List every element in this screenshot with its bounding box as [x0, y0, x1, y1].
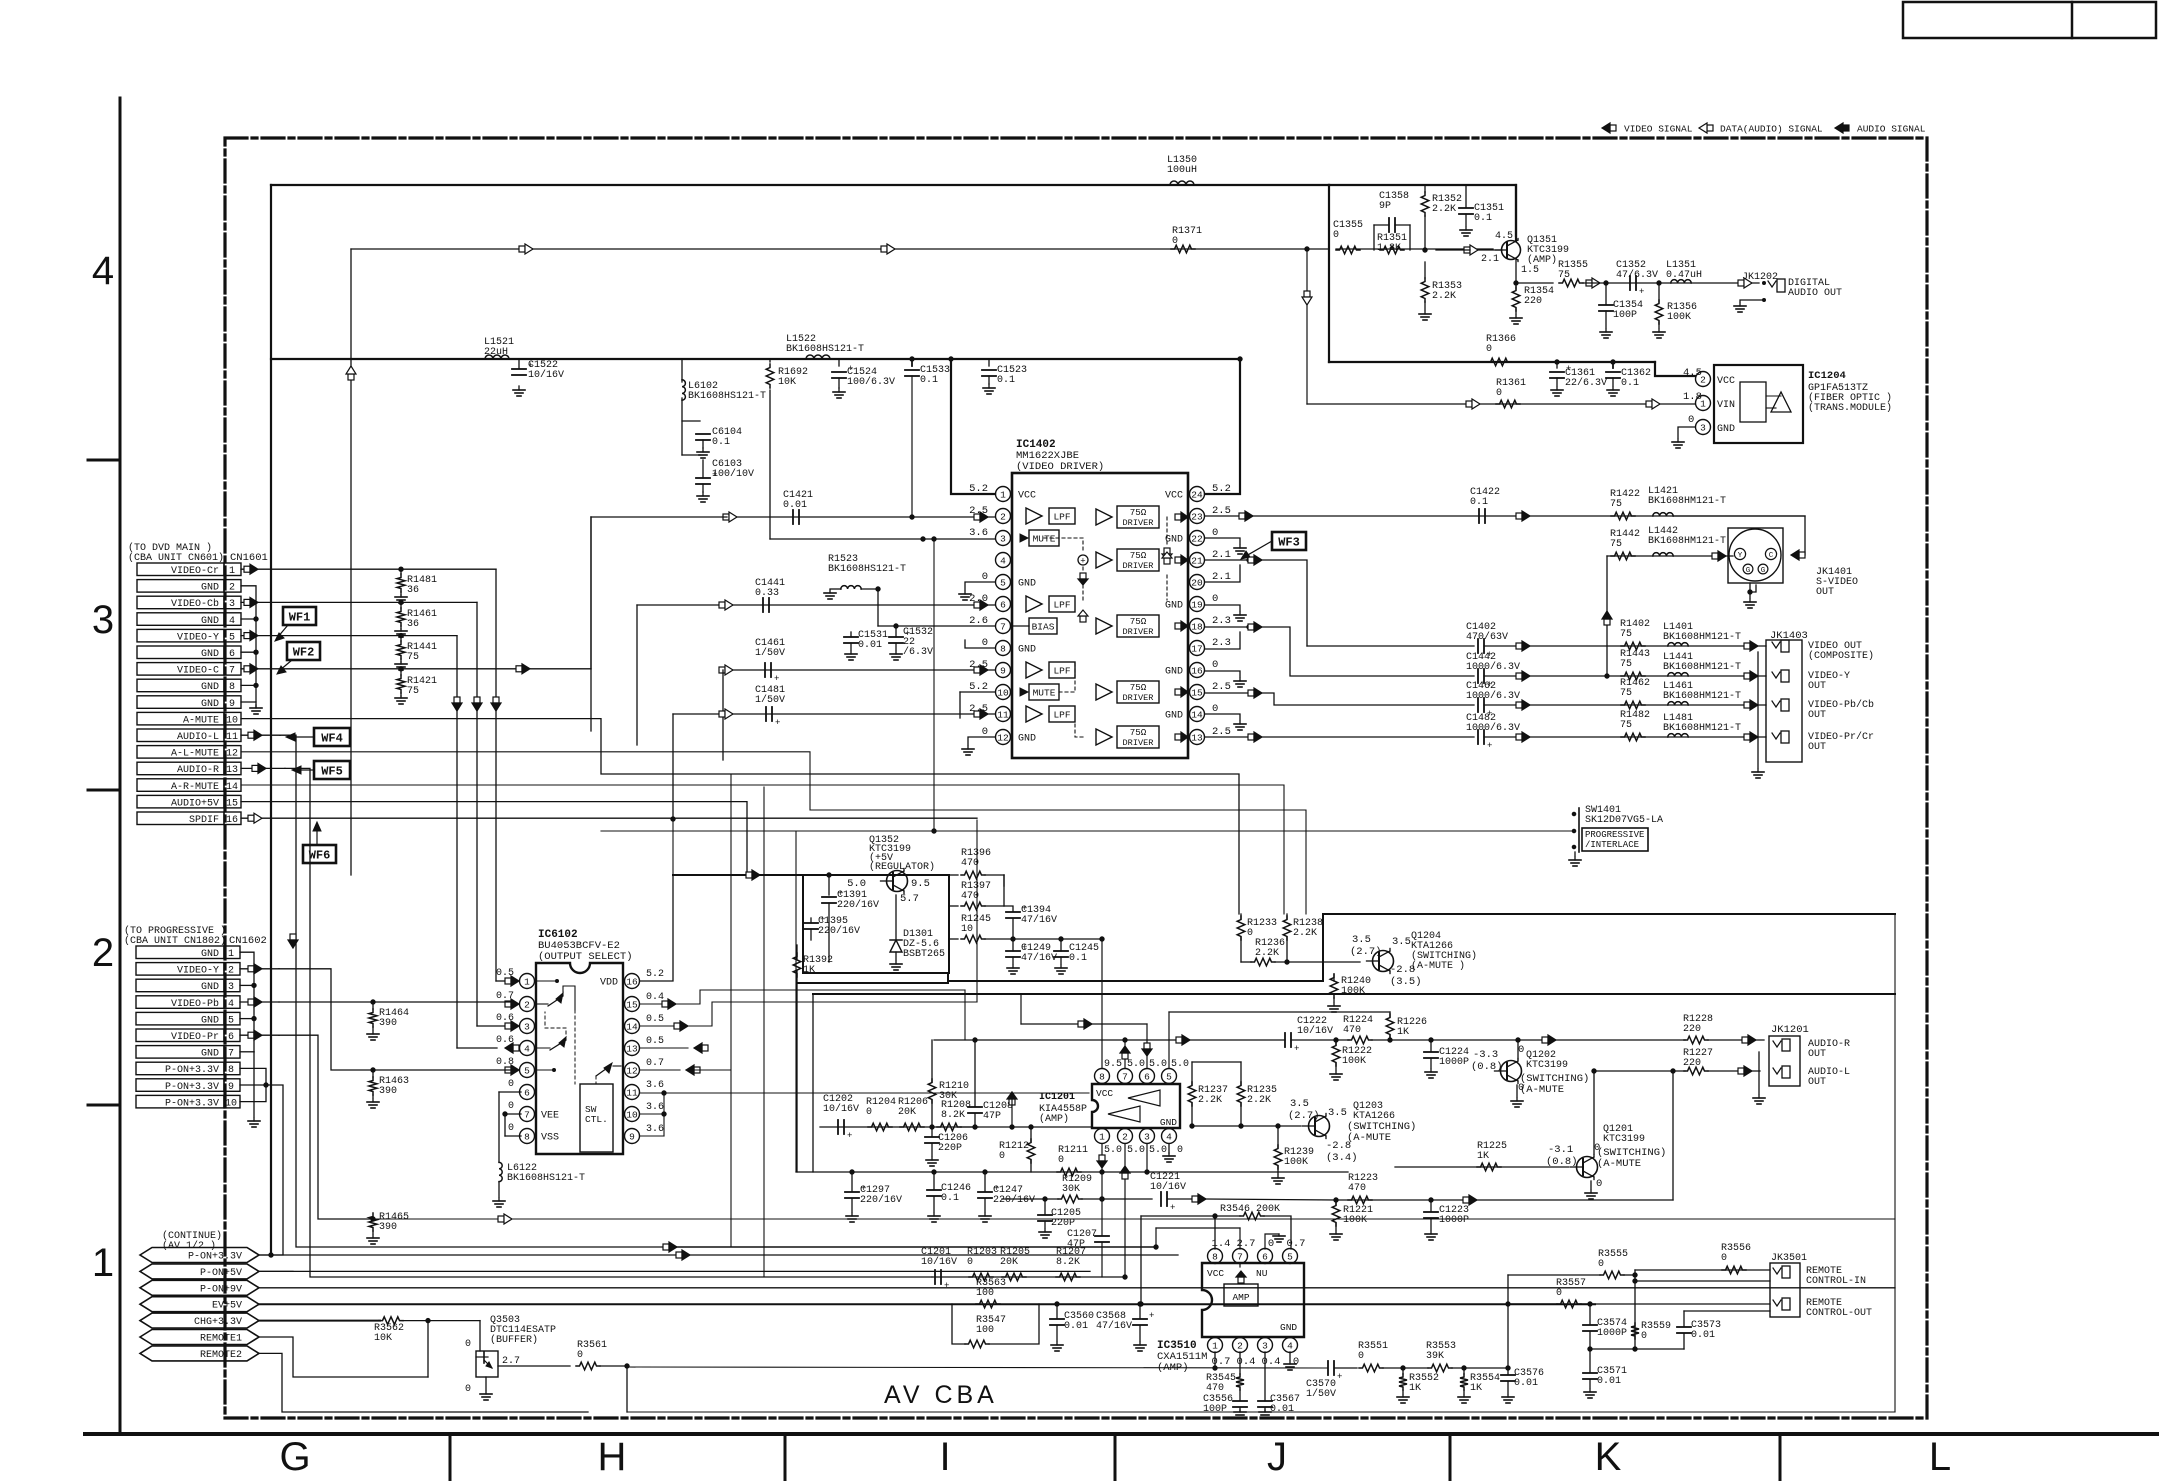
wire R1442 row: [1607, 551, 1733, 561]
svg-text:MUTE: MUTE: [1033, 534, 1056, 545]
capacitor C1481: [755, 685, 785, 728]
svg-text:1K: 1K: [1470, 1383, 1482, 1394]
svg-text:5.0: 5.0: [1149, 1145, 1167, 1156]
svg-text:22uH: 22uH: [484, 347, 508, 358]
svg-text:OUT: OUT: [1808, 710, 1826, 721]
svg-text:+: +: [847, 1131, 852, 1141]
IC1402 BIAS block: [1011, 618, 1057, 634]
resistor R3557: [1556, 1278, 1586, 1308]
svg-text:2: 2: [92, 931, 114, 975]
wire R1207 out: [0, 0, 1, 1]
svg-text:3: 3: [524, 1022, 530, 1033]
wire trunk y=359: [271, 358, 1240, 360]
svg-text:9.5: 9.5: [1104, 1059, 1122, 1070]
svg-text:P-ON+3.3V: P-ON+3.3V: [165, 1098, 219, 1109]
svg-text:75: 75: [1558, 270, 1570, 281]
svg-text:100: 100: [976, 1325, 994, 1336]
svg-text:(3.5): (3.5): [1390, 976, 1422, 988]
resistor R1355: [1558, 260, 1588, 287]
svg-text:75Ω: 75Ω: [1130, 682, 1147, 693]
wire pin5 gnd stub: [959, 582, 995, 600]
wire mid bus e: [0, 0, 1, 1]
IC1402 75ohm drivers: [1096, 506, 1159, 748]
wire L6102 down: [681, 398, 683, 455]
svg-text:DRIVER: DRIVER: [1123, 561, 1154, 571]
svg-text:2: 2: [228, 966, 234, 977]
svg-text:470: 470: [1343, 1025, 1361, 1036]
svg-text:0.01: 0.01: [1270, 1404, 1294, 1415]
svg-text:0: 0: [1358, 1351, 1364, 1362]
capacitor C1421: [783, 490, 813, 524]
svg-text:12: 12: [997, 733, 1009, 744]
svg-text:VIDEO-Pb: VIDEO-Pb: [171, 998, 219, 1010]
wire trunk top y=185: [271, 184, 1329, 186]
svg-text:1: 1: [524, 977, 530, 988]
svg-text:390: 390: [379, 1018, 397, 1029]
svg-text:P-ON+3.3V: P-ON+3.3V: [165, 1065, 219, 1076]
svg-text:10/16V: 10/16V: [1297, 1025, 1333, 1037]
column label L: [1929, 1435, 1951, 1479]
IC1402 summing node: [1078, 555, 1088, 567]
svg-text:MUTE: MUTE: [1033, 688, 1056, 699]
svg-text:5.0: 5.0: [1171, 1059, 1189, 1070]
resistor R1223: [1348, 1173, 1378, 1204]
label VIDEO OUT: [1808, 641, 1874, 662]
wire R3561 right: [600, 1364, 629, 1412]
svg-text:100K: 100K: [1667, 312, 1691, 323]
arrow above C1208: [1007, 1092, 1017, 1129]
IC1402 labels: [1016, 439, 1104, 473]
capacitor C6104: [682, 421, 742, 458]
wire VIN line: [1302, 247, 1695, 404]
svg-text:0.1: 0.1: [1470, 497, 1488, 508]
IC6102 box: [536, 963, 623, 1154]
svg-text:10K: 10K: [374, 1333, 392, 1344]
svg-text:1K: 1K: [1397, 1027, 1409, 1038]
svg-text:4.5: 4.5: [1683, 367, 1702, 379]
connector CN1601 header: [128, 542, 268, 564]
svg-text:6: 6: [1000, 600, 1006, 611]
svg-text:2.7: 2.7: [1237, 1238, 1256, 1250]
svg-text:47P: 47P: [983, 1111, 1001, 1122]
capacitor C1351: [1459, 185, 1504, 236]
wire pin8 stub: [965, 640, 995, 648]
wire R3546 loop: [1139, 1214, 1291, 1306]
wire pin1 drop: [1097, 1144, 1107, 1236]
capacitor C1422: [1470, 487, 1500, 523]
svg-text:10: 10: [997, 688, 1009, 699]
svg-text:47/16V: 47/16V: [1021, 952, 1057, 964]
wire pin5 riser: [1168, 1012, 1170, 1068]
wire CN1602 pin4 run: [0, 0, 1, 1]
svg-text:(A-MUTE: (A-MUTE: [1597, 1158, 1641, 1170]
svg-text:4: 4: [524, 1044, 530, 1055]
diode D1301: [890, 895, 945, 970]
jack JK1201: [1753, 1024, 1850, 1104]
svg-text:10/16V: 10/16V: [921, 1256, 957, 1268]
svg-text:1.5: 1.5: [1521, 265, 1539, 276]
capacitor C1523: [982, 359, 1027, 394]
svg-text:4: 4: [229, 616, 235, 627]
inductor L6122: [493, 1162, 585, 1207]
svg-text:J: J: [1267, 1435, 1287, 1479]
svg-text:100P: 100P: [1203, 1404, 1227, 1415]
WF1 box: [275, 607, 316, 641]
label VIDEO-Pr/Cr: [1808, 731, 1874, 753]
svg-text:7: 7: [1000, 622, 1006, 633]
capacitor C1247: [978, 1170, 1035, 1222]
wire R1366 rail: [1329, 362, 1695, 376]
open arrow VIN b: [1646, 399, 1660, 409]
inductor L1421: [1648, 486, 1726, 516]
svg-text:0: 0: [1333, 230, 1339, 241]
svg-text:GND: GND: [201, 982, 219, 993]
svg-text:3: 3: [228, 982, 234, 993]
svg-text:3: 3: [1262, 1341, 1268, 1352]
wire pin14 run: [640, 1002, 977, 1031]
power entry arrows (CONTINUE AV 1/2): [140, 1248, 259, 1361]
resistor R1463: [367, 1070, 409, 1108]
svg-text:/6.3V: /6.3V: [903, 646, 933, 658]
svg-text:WF1: WF1: [289, 611, 311, 625]
svg-text:30K: 30K: [1062, 1184, 1080, 1195]
svg-text:0.01: 0.01: [858, 640, 882, 651]
svg-text:3: 3: [1144, 1132, 1150, 1143]
svg-text:DRIVER: DRIVER: [1123, 738, 1154, 748]
svg-text:3.5: 3.5: [1392, 936, 1411, 948]
resistor R3553: [1426, 1341, 1456, 1372]
svg-text:K: K: [1595, 1435, 1622, 1479]
svg-text:2: 2: [1000, 512, 1006, 523]
wire CN1601 gnd bus: [241, 586, 262, 714]
connector CN1602 header: [124, 925, 267, 947]
svg-text:2.5: 2.5: [1212, 681, 1231, 693]
wire pin2 down: [1239, 1352, 1241, 1374]
svg-text:-3.3: -3.3: [1473, 1049, 1498, 1061]
frame column tick: [449, 1434, 452, 1481]
svg-text:5: 5: [1166, 1072, 1172, 1083]
svg-text:22/6.3V: 22/6.3V: [1565, 377, 1607, 389]
wire ic3510 vcc net: [0, 0, 1, 1]
inductor L1481: [1663, 713, 1741, 737]
svg-text:4: 4: [1166, 1132, 1172, 1143]
open arrow after R1355: [1586, 278, 1600, 288]
svg-text:100K: 100K: [1341, 986, 1365, 997]
wire S-video Y drop: [1602, 556, 1612, 678]
frame row tick 2/1: [88, 1104, 120, 1107]
resistor R1227: [1683, 1048, 1713, 1075]
svg-text:VDD: VDD: [600, 978, 618, 989]
svg-text:9: 9: [629, 1132, 635, 1143]
wire r3551 right: [1383, 1366, 1428, 1370]
IC1402 pin16 gnd: [1205, 671, 1246, 687]
svg-text:2.2K: 2.2K: [1198, 1095, 1222, 1106]
svg-text:GND: GND: [201, 949, 219, 960]
svg-text:CN1601: CN1601: [230, 552, 268, 564]
svg-text:VIDEO-Cb: VIDEO-Cb: [171, 598, 219, 610]
wire A-MUTE pin10: [241, 719, 1239, 914]
IC1402 pin22 gnd: [1205, 538, 1246, 554]
svg-text:CHG+3.3V: CHG+3.3V: [194, 1317, 242, 1328]
resistor R3554: [1458, 1368, 1500, 1403]
transistor Q1352: [869, 835, 935, 894]
svg-text:+: +: [1294, 1044, 1299, 1054]
resistor R1235: [1192, 1062, 1277, 1126]
svg-text:SK12D07VG5-LA: SK12D07VG5-LA: [1585, 815, 1663, 826]
svg-text:(OUTPUT SELECT): (OUTPUT SELECT): [538, 951, 633, 963]
wire CN1602 pin2: [240, 964, 279, 974]
capacitor C1461: [755, 638, 785, 684]
svg-text:KTC3199: KTC3199: [1526, 1060, 1568, 1071]
wire pin3 drop: [1145, 1144, 1149, 1174]
wire pin13 run: [640, 1043, 708, 1053]
wire P-ON+9V line: [259, 1287, 1895, 1289]
WF4 box: [286, 728, 350, 746]
wire long v set: [673, 774, 796, 1277]
svg-text:100P: 100P: [1613, 310, 1637, 321]
inductor L1401: [1663, 622, 1741, 646]
wire pin9 input: [719, 665, 995, 675]
wire CN1602 gnd down: [248, 1052, 260, 1127]
wire q1201 col: [1592, 1069, 1675, 1200]
border frame bottom rule: [85, 1432, 2159, 1436]
svg-text:(0.8): (0.8): [1546, 1156, 1578, 1168]
capacitor C1205: [1038, 1199, 1081, 1238]
svg-text:VIDEO SIGNAL: VIDEO SIGNAL: [1624, 124, 1693, 135]
wire A-L-MUTE pin12: [241, 752, 1306, 914]
connector CN1601 body: [137, 563, 241, 826]
svg-text:EV+5V: EV+5V: [212, 1301, 242, 1312]
svg-text:0: 0: [1177, 1145, 1183, 1156]
svg-text:BIAS: BIAS: [1032, 622, 1055, 633]
svg-text:0: 0: [1212, 703, 1218, 715]
svg-text:0.01: 0.01: [1064, 1321, 1088, 1332]
svg-text:AV CBA: AV CBA: [884, 1381, 998, 1409]
svg-text:BK1608HS121-T: BK1608HS121-T: [507, 1173, 585, 1184]
svg-text:3: 3: [229, 599, 235, 610]
svg-text:0.4: 0.4: [646, 992, 664, 1003]
resistor R1209: [1058, 1174, 1092, 1203]
resistor R1238: [1283, 914, 1323, 962]
wire CN1602 pin6 run: [279, 1035, 1895, 1224]
svg-text:WF4: WF4: [321, 732, 343, 746]
svg-text:0: 0: [1496, 388, 1502, 399]
svg-text:BSBT265: BSBT265: [903, 949, 945, 960]
IC6102 left pins: [496, 968, 559, 1144]
svg-text:3.6: 3.6: [646, 1124, 664, 1135]
svg-text:0.1: 0.1: [941, 1193, 959, 1204]
svg-text:BK1608HM121-T: BK1608HM121-T: [1663, 723, 1741, 734]
resistor R1692: [766, 359, 808, 539]
svg-text:0.1: 0.1: [1069, 953, 1087, 964]
svg-text:P-ON+9V: P-ON+9V: [200, 1284, 242, 1295]
svg-text:(VIDEO DRIVER): (VIDEO DRIVER): [1016, 461, 1104, 473]
svg-text:75: 75: [407, 686, 419, 697]
svg-text:14: 14: [226, 782, 238, 793]
wire trunk to IC1402 pin1 VCC: [949, 357, 995, 494]
capacitor C1201: [921, 1247, 957, 1291]
svg-text:0: 0: [1212, 527, 1218, 539]
wire EV+5V line: [259, 1303, 1595, 1305]
svg-text:100/6.3V: 100/6.3V: [847, 376, 895, 388]
svg-text:2.1: 2.1: [1481, 254, 1499, 265]
svg-text:5.2: 5.2: [969, 483, 988, 495]
wire r3557 right: [1581, 1302, 1770, 1306]
resistor R1351: [1377, 233, 1407, 254]
svg-text:1K: 1K: [1477, 1151, 1489, 1162]
transistor Q1351: [1496, 185, 1570, 266]
IC3510 bottom pins: [1208, 1338, 1300, 1369]
svg-text:BK1608HM121-T: BK1608HM121-T: [1648, 536, 1726, 547]
wire CN1602 pin2 run: [279, 969, 511, 1072]
svg-text:100: 100: [976, 1288, 994, 1299]
wire pin6 riser: [1142, 1024, 1152, 1068]
svg-text:JK1202: JK1202: [1742, 272, 1778, 283]
wire CN1601 pin1 run: [241, 564, 496, 574]
wire AUDIO-R run: [285, 768, 932, 1277]
IC3510 top pins: [1208, 1234, 1306, 1264]
svg-text:AUDIO+5V: AUDIO+5V: [171, 798, 219, 809]
resistor R1481: [395, 569, 437, 603]
svg-text:GND: GND: [1165, 667, 1183, 678]
svg-text:0: 0: [1247, 928, 1253, 939]
svg-text:GND: GND: [201, 1049, 219, 1060]
svg-text:L: L: [1929, 1435, 1951, 1479]
svg-text:GND: GND: [201, 649, 219, 660]
inductor L1461: [1663, 681, 1741, 705]
open arrow on 249 line b: [881, 244, 895, 254]
wire P-ON+3.3V vertical trunk: [270, 185, 272, 1255]
svg-text:470: 470: [961, 891, 979, 902]
svg-text:0: 0: [1598, 1259, 1604, 1270]
wire pin3 down: [1264, 1352, 1266, 1401]
wire Q1203 base: [1190, 1124, 1301, 1128]
wire P-ON+5V line: [259, 1270, 1090, 1272]
IC3510 pin4 gnd: [1284, 1352, 1296, 1370]
Q1352 values: [847, 878, 930, 905]
svg-text:AUDIO OUT: AUDIO OUT: [1788, 288, 1842, 299]
svg-text:3.5: 3.5: [1328, 1107, 1347, 1119]
wire IC3510 pin8 heavy: [1214, 1216, 1216, 1249]
capacitor C1402: [1466, 622, 1508, 660]
capacitor C3567: [1258, 1394, 1300, 1418]
svg-text:0: 0: [508, 1123, 514, 1134]
svg-text:+: +: [1337, 1372, 1342, 1382]
svg-text:+: +: [944, 1281, 949, 1291]
wire y1349 bus: [1590, 1347, 1684, 1351]
svg-text:7: 7: [524, 1110, 530, 1121]
svg-text:9P: 9P: [1379, 201, 1391, 212]
svg-text:GND: GND: [201, 682, 219, 693]
resistor R3562: [374, 1317, 480, 1344]
capacitor C1361: [1550, 360, 1607, 396]
row label 4: [92, 249, 114, 293]
svg-text:A-MUTE: A-MUTE: [183, 715, 219, 726]
IC1402 output arrows: [1175, 512, 1188, 742]
svg-text:WF6: WF6: [309, 849, 331, 863]
svg-text:16: 16: [1191, 666, 1203, 677]
wire long v x=781: [0, 0, 1, 1]
wire SPDIF pin16: [241, 813, 977, 823]
svg-text:0: 0: [465, 1384, 471, 1395]
connector CN1602 body: [136, 946, 240, 1109]
svg-text:20: 20: [1191, 578, 1203, 589]
label AV CBA: [884, 1381, 998, 1409]
svg-text:470: 470: [961, 858, 979, 869]
IC1201 box: [1092, 1084, 1180, 1128]
svg-text:2.2K: 2.2K: [1432, 291, 1456, 302]
svg-text:0.7: 0.7: [646, 1058, 664, 1069]
svg-text:+: +: [1487, 741, 1492, 751]
resistor R1221: [1330, 1198, 1373, 1240]
svg-text:GND: GND: [201, 583, 219, 594]
WF5 box: [292, 761, 350, 779]
svg-text:(2.7): (2.7): [1350, 946, 1382, 958]
resistor R3545: [1206, 1373, 1244, 1394]
wire r3555 right: [1624, 1270, 1770, 1283]
svg-text:0: 0: [1268, 1238, 1274, 1250]
open arrow on 249 line: [519, 244, 533, 254]
svg-text:H: H: [598, 1435, 627, 1479]
svg-text:PROGRESSIVE: PROGRESSIVE: [1585, 830, 1644, 840]
jack JK1401 S-VIDEO: [1728, 528, 1858, 608]
svg-text:9: 9: [1000, 666, 1006, 677]
svg-text:8: 8: [228, 1065, 234, 1076]
wire C1402 left: [1307, 645, 1474, 647]
capacitor C1358: [1374, 191, 1410, 250]
resistor R1203: [967, 1247, 997, 1281]
svg-text:C: C: [1769, 552, 1774, 560]
svg-text:47/16V: 47/16V: [1021, 914, 1057, 926]
inductor L1441: [1663, 652, 1741, 676]
resistor R3559: [1631, 1321, 1671, 1342]
svg-text:1000/6.3V: 1000/6.3V: [1466, 690, 1520, 702]
capacitor C1391: [822, 873, 879, 962]
IC1204 fiber optic module box: [1714, 365, 1803, 443]
svg-text:3: 3: [92, 598, 114, 642]
wire pin3 input: [770, 537, 995, 541]
resistor R3561: [576, 1340, 607, 1370]
svg-text:3.5: 3.5: [1290, 1098, 1309, 1110]
Q1204 values: [1350, 934, 1422, 988]
svg-text:2.2K: 2.2K: [1293, 928, 1317, 939]
progressive/interlace box: [1582, 828, 1648, 851]
svg-text:0: 0: [982, 571, 988, 583]
wire R1245 down: [0, 0, 1, 1]
legend data signal arrow: [1699, 123, 1823, 135]
Q1202 values: [1471, 1044, 1524, 1094]
wire q1202 collector: [1516, 1038, 1520, 1059]
svg-text:BK1608HM121-T: BK1608HM121-T: [1648, 496, 1726, 507]
resistor R1233: [1237, 914, 1277, 962]
wire remote2 run: [627, 1411, 1895, 1413]
wire IC6102 pin5: [0, 0, 1, 1]
capacitor C1524: [832, 359, 895, 398]
wire trunk to IC1402 VCC: [1205, 357, 1242, 494]
wire pin10 input: [960, 692, 995, 718]
svg-text:47/16V: 47/16V: [1096, 1320, 1132, 1332]
wire pin23 line: [1205, 511, 1805, 521]
svg-text:BK1608HS121-T: BK1608HS121-T: [688, 391, 766, 402]
resistor R1239: [1272, 1124, 1314, 1184]
transistor Q3503: [465, 1315, 556, 1400]
svg-text:0.33: 0.33: [755, 588, 779, 599]
svg-text:0: 0: [1486, 344, 1492, 355]
capacitor C3568: [1096, 1302, 1154, 1351]
svg-text:0: 0: [982, 726, 988, 738]
title block: [1903, 2, 2156, 38]
wire bus y=745b: [0, 0, 1, 1]
